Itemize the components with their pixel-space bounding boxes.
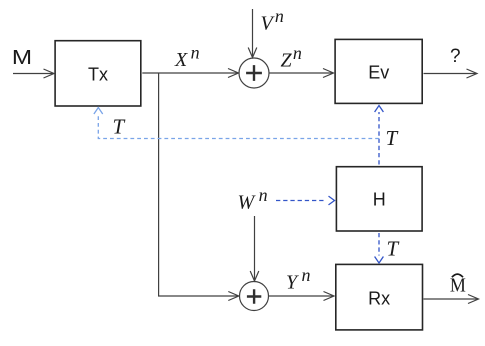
wire Ev output bbox=[424, 69, 478, 78]
svg-text:Wn: Wn bbox=[238, 185, 268, 214]
wire Wn to H dashed bbox=[276, 196, 335, 205]
svg-text:Xn: Xn bbox=[174, 43, 200, 72]
svg-text:Ev: Ev bbox=[368, 63, 389, 83]
wire Rx output bbox=[424, 295, 479, 304]
wire H to Rx dashed T bbox=[375, 233, 384, 263]
svg-text:Vn: Vn bbox=[261, 6, 284, 35]
summing junction S1 bbox=[239, 58, 269, 88]
wire Wn input bbox=[250, 216, 259, 281]
block Rx bbox=[336, 264, 423, 330]
block Tx bbox=[55, 41, 141, 106]
svg-text:Yn: Yn bbox=[286, 265, 311, 294]
svg-text:H: H bbox=[373, 190, 386, 210]
svg-text:T: T bbox=[113, 115, 126, 139]
svg-text:M: M bbox=[12, 47, 32, 69]
wire M input bbox=[13, 69, 54, 78]
wire S2 to Rx bbox=[269, 292, 335, 301]
svg-text:?: ? bbox=[450, 46, 461, 67]
wire Vn input bbox=[248, 9, 257, 58]
svg-text:Zn: Zn bbox=[281, 43, 302, 72]
wire T feedback to Tx dashed bbox=[94, 108, 379, 139]
block H bbox=[336, 167, 422, 231]
summing junction S2 bbox=[240, 282, 269, 311]
svg-text:Rx: Rx bbox=[368, 288, 390, 308]
wire Xn branch to S2 bbox=[159, 73, 239, 301]
wire Tx to S1 bbox=[142, 69, 238, 78]
wire H to Ev dashed T bbox=[375, 106, 384, 165]
label M-hat bbox=[450, 274, 466, 297]
block Ev bbox=[335, 39, 422, 103]
svg-text:T: T bbox=[386, 126, 399, 150]
svg-text:T: T bbox=[387, 237, 400, 261]
svg-text:M: M bbox=[450, 275, 466, 297]
wire S1 to Ev bbox=[269, 69, 334, 78]
svg-text:Tx: Tx bbox=[88, 64, 108, 84]
